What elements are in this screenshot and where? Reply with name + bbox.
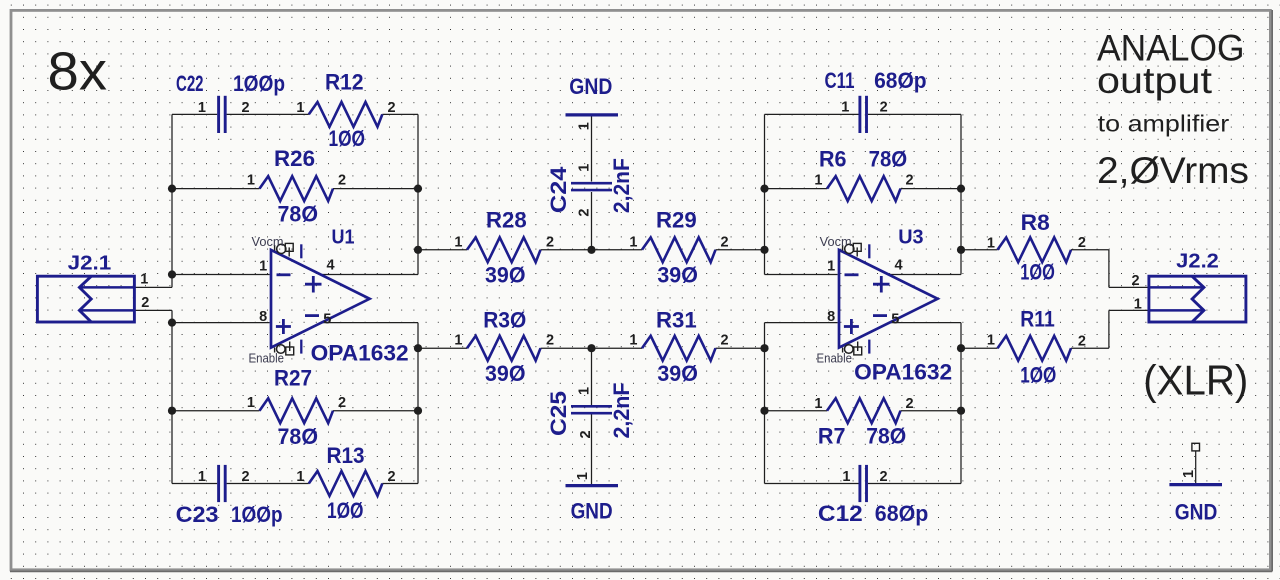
wire U1 out- pin5 [320,322,418,324]
junction U1 out+ / R26 [414,185,422,193]
wire U1 out+ pin4 [320,274,418,276]
svg-text:C11: C11 [825,68,855,93]
junction R29 / U3 in- [760,246,768,254]
svg-text:Vocm: Vocm [252,235,284,249]
svg-text:1: 1 [629,234,637,250]
wire top path right of C11 [868,113,961,115]
svg-text:1: 1 [259,259,267,275]
wire U1 pin8 input [172,322,270,324]
svg-text:(XLR): (XLR) [1143,357,1248,404]
connector J2.1 [37,252,149,322]
wire R30 left [418,347,467,349]
wire bottom path left of C12 [765,483,859,485]
wire U3 output rail lower [960,323,962,484]
svg-text:2,2nF: 2,2nF [609,383,634,439]
svg-text:R27: R27 [274,365,312,390]
svg-text:78Ø: 78Ø [278,424,319,449]
svg-text:1: 1 [198,469,206,485]
svg-text:78Ø: 78Ø [278,201,319,226]
wire R31 left [592,347,643,349]
svg-text:U3: U3 [898,227,923,249]
annotation output [1097,60,1213,101]
wire R28 right [541,249,592,251]
svg-text:1: 1 [1181,470,1197,478]
capacitor C22 100p [176,71,285,133]
annotation to amplifier [1098,111,1230,137]
svg-text:39Ø: 39Ø [485,361,526,386]
svg-text:2: 2 [906,173,914,189]
wire U3 out+ pin4 [888,274,961,276]
svg-text:R31: R31 [656,307,697,332]
svg-text:Vocm: Vocm [820,235,852,249]
wire R6 left [765,188,828,190]
resistor R26 780 [247,146,346,226]
svg-text:2,2nF: 2,2nF [609,158,634,213]
svg-text:1ØØ: 1ØØ [327,498,364,523]
svg-text:R26: R26 [274,146,315,171]
svg-text:1: 1 [576,122,592,130]
wire U3 pin1 input [765,274,838,276]
wire R27 right [333,410,418,412]
annotation ANALOG [1097,27,1245,68]
wire R30 right [541,347,592,349]
wire bottom path right of C12 [868,483,961,485]
wire R8 right [1071,249,1109,251]
svg-text:1ØØ: 1ØØ [1020,260,1055,285]
svg-text:output: output [1097,60,1213,101]
wire R26 left [172,188,260,190]
svg-text:C12: C12 [818,501,863,526]
svg-text:1: 1 [247,173,255,189]
svg-text:5: 5 [323,311,331,327]
resistor R29 390 [629,208,728,288]
wire input rail upper (net IN-) [171,114,173,287]
wire R31 right [716,347,765,349]
wire C24 to node [591,192,593,250]
junction IN- / U1 pin1 [168,270,176,278]
svg-text:1: 1 [987,333,995,349]
connector J2.2 [1132,251,1246,322]
svg-text:4: 4 [327,258,335,274]
resistor R13 100 [296,443,395,523]
wire R11 left [961,347,998,349]
wire R11 right [1071,347,1109,349]
wire R7 right [901,410,962,412]
svg-text:1: 1 [198,100,206,116]
svg-text:1: 1 [814,396,822,412]
resistor R11 100 [987,307,1086,388]
wire node to C25 [591,348,593,405]
resistor R30 390 [454,307,554,386]
svg-text:R8: R8 [1021,210,1050,235]
svg-text:1: 1 [629,333,637,349]
resistor R31 390 [629,307,728,386]
wire J2.2 pin2 stub [1109,286,1148,288]
wire R29 right [716,249,765,251]
svg-text:1: 1 [575,472,591,480]
wire J2.1 pin2 stub [135,309,173,311]
svg-text:8: 8 [259,309,267,325]
wire top path right of R12 [382,113,418,115]
svg-text:1: 1 [296,100,304,116]
svg-text:5: 5 [891,311,899,327]
wire U3 input rail upper [764,114,766,274]
svg-text:R12: R12 [325,70,364,95]
wire GND bottom-right [1195,451,1197,483]
resistor R12 100 [296,70,395,152]
svg-text:8x: 8x [48,42,108,102]
svg-text:1: 1 [454,333,462,349]
svg-text:1ØØ: 1ØØ [1020,363,1056,388]
svg-text:2: 2 [242,469,250,485]
svg-text:2: 2 [880,99,888,115]
wire R8 left [961,249,998,251]
svg-text:2: 2 [880,469,888,485]
svg-text:R29: R29 [656,208,697,233]
svg-text:J2.1: J2.1 [68,252,112,274]
svg-text:1: 1 [140,271,148,287]
wire U3 out- pin5 [888,322,961,324]
wire U1 output rail upper [417,114,419,274]
wire bottom path left of C23 [172,483,217,485]
junction U3 in+ / R7 [760,407,768,415]
junction U3 in- / R6 [760,185,768,193]
resistor R8 100 [987,210,1086,285]
junction U3 out- / R7 [957,407,965,415]
svg-text:C25: C25 [546,391,571,436]
svg-text:78Ø: 78Ø [866,423,906,448]
svg-text:2: 2 [388,469,396,485]
svg-text:1: 1 [454,234,462,250]
capacitor C12 680p [818,465,928,526]
svg-text:2: 2 [721,234,729,250]
svg-text:1: 1 [827,259,835,275]
svg-text:8: 8 [827,309,835,325]
svg-text:2: 2 [242,100,250,116]
wire R6 right [901,188,962,190]
svg-text:1: 1 [842,469,850,485]
junction U1 out- / R30 [414,344,422,352]
resistor R28 390 [454,208,554,288]
svg-text:2: 2 [721,333,729,349]
junction U3 out- / R11 [957,344,965,352]
wire J2.2 pin1 stub [1109,309,1148,311]
capacitor C25 2,2nF [546,383,634,439]
junction U1 out+ / R28 [414,246,422,254]
wire top path C22 to R12 [227,113,309,115]
svg-text:1: 1 [987,236,995,252]
ground GND top [566,74,619,130]
wire U1 output rail lower [417,323,419,484]
svg-text:2: 2 [141,295,149,311]
svg-text:GND: GND [569,74,612,99]
junction IN+ / R27 [168,407,176,415]
svg-text:1: 1 [247,395,255,411]
svg-text:39Ø: 39Ø [657,361,698,386]
svg-text:GND: GND [571,498,613,523]
resistor R7 780 [814,396,913,448]
junction IN+ / U1 pin8 [168,319,176,327]
svg-text:1: 1 [296,469,304,485]
junction U1 out- / R27 [414,407,422,415]
wire U3 output rail upper [960,114,962,274]
junction R28 R29 C24 [587,246,595,254]
annotation 8x [48,42,108,102]
wire GND to C24 [591,116,593,182]
capacitor C23 100p [176,465,283,527]
svg-text:39Ø: 39Ø [485,263,526,288]
svg-text:1ØØ: 1ØØ [329,126,366,151]
svg-text:1ØØp: 1ØØp [231,502,283,527]
svg-text:2,ØVrms: 2,ØVrms [1097,150,1249,191]
capacitor C24 2,2nF [546,158,634,217]
svg-text:R6: R6 [819,147,847,172]
junction U3 out+ / R6 [957,185,965,193]
svg-text:2: 2 [546,234,554,250]
resistor R6 780 [814,147,913,202]
svg-text:1: 1 [576,164,592,172]
svg-text:C24: C24 [546,166,571,213]
annotation (XLR) [1143,357,1248,404]
svg-text:C22: C22 [176,71,204,96]
svg-text:39Ø: 39Ø [657,263,698,288]
wire bottom path C23 to R13 [227,483,309,485]
svg-text:1: 1 [1134,297,1142,313]
resistor R27 780 [247,365,346,448]
svg-text:OPA1632: OPA1632 [854,360,952,385]
wire U3 pin8 input [765,322,838,324]
svg-text:U1: U1 [332,227,355,249]
wire R28 left [418,249,467,251]
wire R26 right [333,188,418,190]
wire R7 left [765,410,828,412]
svg-text:R13: R13 [327,443,365,468]
junction U3 out+ / R8 [957,246,965,254]
wire input rail lower (net IN+) [171,310,173,483]
svg-text:2: 2 [578,430,594,438]
svg-text:78Ø: 78Ø [869,147,908,172]
svg-text:R3Ø: R3Ø [483,307,526,332]
capacitor C11 680p [825,68,927,133]
svg-text:2: 2 [906,396,914,412]
junction R30 R31 C25 [587,344,595,352]
svg-text:R7: R7 [818,423,846,448]
svg-text:1: 1 [841,99,849,115]
svg-text:1: 1 [576,387,592,395]
wire R8 to J2.2 drop [1108,250,1110,288]
wire U3 input rail lower [764,323,766,484]
wire R11 to J2.2 rise [1108,310,1110,348]
svg-text:2: 2 [577,209,593,217]
svg-text:2: 2 [1078,334,1086,350]
wire C25 to GND [591,414,593,484]
svg-text:2: 2 [388,100,396,116]
svg-text:1: 1 [814,173,822,189]
svg-text:GND: GND [1175,500,1218,525]
svg-text:OPA1632: OPA1632 [311,341,409,366]
op-amp U3 OPA1632 [817,227,953,385]
svg-text:to amplifier: to amplifier [1098,111,1230,137]
wire R27 left [172,410,260,412]
junction R31 / U3 in+ [760,344,768,352]
annotation 2,0Vrms [1097,150,1249,191]
wire top path left of C22 [172,113,217,115]
svg-text:C23: C23 [176,502,219,527]
svg-text:68Øp: 68Øp [874,68,927,93]
wire top path left of C11 [765,113,859,115]
svg-text:R28: R28 [486,208,527,233]
wire R29 left [592,249,643,251]
wire bottom path right of R13 [382,483,418,485]
svg-text:Enable: Enable [817,352,853,366]
svg-text:R11: R11 [1020,307,1055,332]
wire U1 pin1 input [172,274,270,276]
svg-text:2: 2 [1078,235,1086,251]
svg-text:68Øp: 68Øp [875,501,929,526]
svg-text:2: 2 [1132,273,1140,289]
ground GND bottom [566,472,619,523]
svg-text:2: 2 [338,173,346,189]
svg-text:4: 4 [895,258,903,274]
svg-text:J2.2: J2.2 [1176,251,1219,273]
ground GND bottom-right [1169,443,1222,524]
junction IN- / R26 [168,185,176,193]
svg-text:Enable: Enable [249,352,285,366]
op-amp U1 OPA1632 [249,227,409,366]
wire J2.1 pin1 stub [135,286,173,288]
svg-text:1ØØp: 1ØØp [233,71,285,96]
svg-text:2: 2 [338,395,346,411]
svg-text:2: 2 [546,333,554,349]
